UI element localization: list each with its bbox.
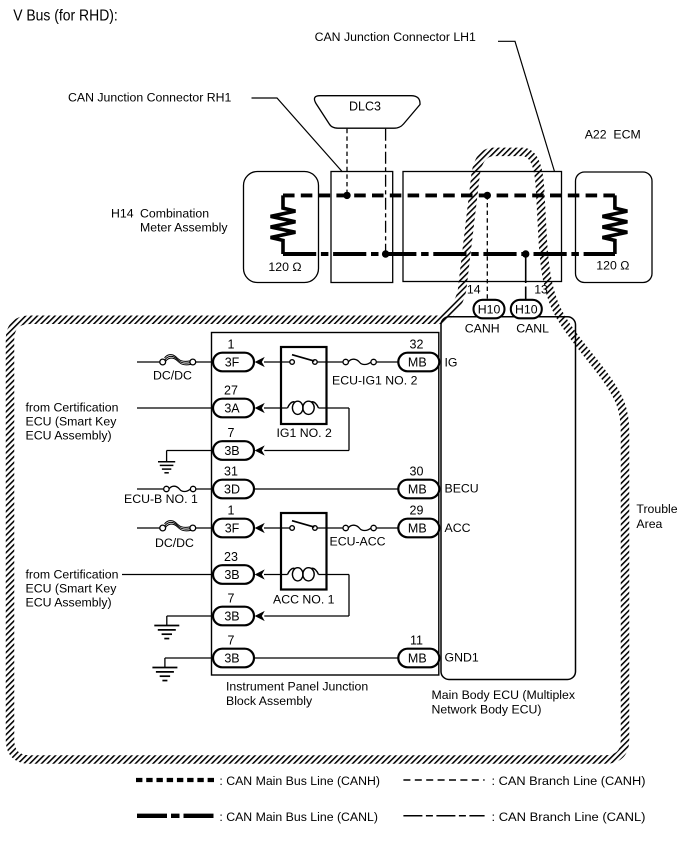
svg-text:: CAN Main Bus Line (CANH): : CAN Main Bus Line (CANH) bbox=[219, 774, 380, 788]
svg-text:Meter Assembly: Meter Assembly bbox=[140, 221, 228, 235]
svg-text:CANL: CANL bbox=[516, 322, 549, 336]
svg-text:13: 13 bbox=[534, 283, 548, 297]
svg-text:3B: 3B bbox=[224, 651, 239, 665]
svg-text:H10: H10 bbox=[515, 302, 538, 316]
svg-text:MB: MB bbox=[408, 651, 427, 665]
svg-text:DC/DC: DC/DC bbox=[153, 369, 192, 383]
svg-text:A22 ECM: A22 ECM bbox=[585, 128, 641, 142]
svg-text:: CAN Main Bus Line (CANL): : CAN Main Bus Line (CANL) bbox=[219, 810, 378, 824]
svg-text:DLC3: DLC3 bbox=[349, 100, 381, 114]
svg-text:IG: IG bbox=[445, 355, 458, 369]
svg-text:ACC NO. 1: ACC NO. 1 bbox=[273, 592, 335, 606]
svg-text:ECU Assembly): ECU Assembly) bbox=[26, 596, 112, 610]
svg-text:32: 32 bbox=[410, 338, 424, 352]
svg-text:Main Body ECU (Multiplex: Main Body ECU (Multiplex bbox=[432, 688, 576, 702]
svg-text:3B: 3B bbox=[224, 609, 239, 623]
svg-text:ECU (Smart Key: ECU (Smart Key bbox=[26, 415, 118, 429]
svg-text:Trouble: Trouble bbox=[636, 502, 677, 516]
svg-text:3F: 3F bbox=[225, 355, 240, 369]
svg-text:CAN Junction Connector LH1: CAN Junction Connector LH1 bbox=[315, 30, 476, 44]
svg-text:: CAN Branch Line (CANH): : CAN Branch Line (CANH) bbox=[492, 774, 646, 788]
svg-text:14: 14 bbox=[467, 283, 481, 297]
svg-text:CANH: CANH bbox=[465, 322, 500, 336]
svg-text:120 Ω: 120 Ω bbox=[268, 260, 301, 274]
svg-text:DC/DC: DC/DC bbox=[155, 536, 194, 550]
svg-text:7: 7 bbox=[228, 592, 235, 606]
svg-text:V Bus (for RHD):: V Bus (for RHD): bbox=[13, 8, 118, 25]
svg-text:GND1: GND1 bbox=[445, 650, 479, 664]
svg-text:3B: 3B bbox=[224, 568, 239, 582]
svg-text:Block Assembly: Block Assembly bbox=[226, 694, 313, 708]
svg-text:31: 31 bbox=[224, 465, 238, 479]
svg-text:H10: H10 bbox=[478, 302, 501, 316]
svg-text:Area: Area bbox=[636, 517, 662, 531]
svg-text:7: 7 bbox=[228, 634, 235, 648]
svg-text:11: 11 bbox=[410, 634, 423, 648]
svg-text:from Certification: from Certification bbox=[26, 568, 119, 582]
svg-text:ECU-IG1 NO. 2: ECU-IG1 NO. 2 bbox=[332, 374, 418, 388]
svg-text:27: 27 bbox=[224, 384, 238, 398]
svg-text:Instrument Panel Junction: Instrument Panel Junction bbox=[226, 680, 368, 694]
svg-text:3D: 3D bbox=[224, 482, 240, 496]
svg-text:1: 1 bbox=[228, 338, 235, 352]
svg-text:MB: MB bbox=[408, 482, 427, 496]
svg-text:ECU (Smart Key: ECU (Smart Key bbox=[26, 582, 118, 596]
svg-text:MB: MB bbox=[408, 521, 427, 535]
svg-text:29: 29 bbox=[410, 504, 424, 518]
svg-text:ACC: ACC bbox=[445, 521, 471, 535]
svg-text:30: 30 bbox=[410, 465, 424, 479]
svg-text:120 Ω: 120 Ω bbox=[596, 259, 629, 273]
svg-text:MB: MB bbox=[408, 355, 427, 369]
svg-text:7: 7 bbox=[228, 426, 235, 440]
svg-text:H14: H14 bbox=[111, 206, 134, 220]
svg-text:1: 1 bbox=[228, 504, 235, 518]
svg-text:: CAN Branch Line (CANL): : CAN Branch Line (CANL) bbox=[492, 810, 646, 824]
svg-text:3B: 3B bbox=[224, 444, 239, 458]
svg-text:3A: 3A bbox=[224, 401, 240, 415]
svg-text:ECU-B NO. 1: ECU-B NO. 1 bbox=[124, 492, 198, 506]
svg-text:Combination: Combination bbox=[140, 206, 209, 220]
svg-text:IG1 NO. 2: IG1 NO. 2 bbox=[277, 426, 333, 440]
svg-text:BECU: BECU bbox=[445, 482, 479, 496]
svg-text:ECU Assembly): ECU Assembly) bbox=[26, 429, 112, 443]
svg-text:3F: 3F bbox=[225, 521, 240, 535]
svg-text:Network Body ECU): Network Body ECU) bbox=[432, 702, 542, 716]
svg-text:23: 23 bbox=[224, 550, 238, 564]
svg-text:CAN Junction Connector RH1: CAN Junction Connector RH1 bbox=[68, 90, 232, 104]
svg-text:from Certification: from Certification bbox=[26, 401, 119, 415]
svg-text:ECU-ACC: ECU-ACC bbox=[330, 535, 386, 549]
